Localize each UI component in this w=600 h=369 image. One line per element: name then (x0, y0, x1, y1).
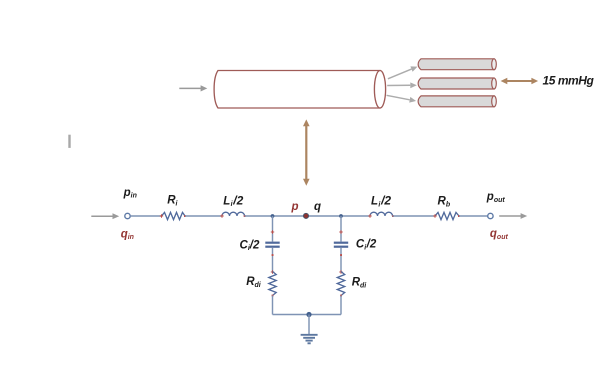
ground symbol (301, 335, 318, 344)
svg-text:Li/2: Li/2 (371, 194, 391, 209)
input arrow (gray, into circuit) (91, 213, 119, 219)
svg-text:Ci/2: Ci/2 (240, 239, 260, 252)
junction node right (339, 214, 343, 218)
red dot R_di1 bottom (272, 295, 274, 297)
wire: terminal to R_i (130, 215, 161, 217)
red polarity cross R_b left (433, 214, 436, 217)
red polarity cross L2 left (368, 214, 371, 217)
red dot R_di2 bottom (340, 295, 342, 297)
small cylinder 2 (418, 78, 496, 89)
red dot L2 right (392, 215, 394, 217)
svg-text:Ci/2: Ci/2 (356, 239, 377, 252)
wire: R_di left to bottom rail (272, 296, 274, 315)
svg-text:q: q (314, 201, 321, 213)
svg-text:Rdi: Rdi (246, 276, 262, 289)
ground stem wire (308, 315, 310, 335)
output terminal circle p_out (488, 213, 493, 218)
fan arrow middle (tube to small cylinder 2) (387, 82, 417, 88)
red cross R_di1 top (271, 270, 274, 273)
fan arrow bottom (tube to small cylinder 3) (387, 95, 417, 102)
fan arrow top (tube to small cylinder 1) (388, 66, 418, 78)
resistor R_b (435, 212, 459, 219)
resistor R_i (162, 212, 186, 219)
red cross cap2 top (339, 230, 342, 233)
vessel tube (large cylinder) (214, 71, 386, 109)
small cylinder 3 (418, 96, 496, 107)
red dot L right (244, 215, 246, 217)
wire: L_i/2 to L_i/2 (through nodes) (245, 215, 371, 217)
svg-text:15 mmHg: 15 mmHg (543, 73, 595, 87)
resistor R_di right (vertical) (337, 272, 344, 296)
svg-text:qin: qin (121, 228, 134, 241)
input terminal circle p_in (125, 213, 130, 218)
junction node left (271, 214, 275, 218)
wire: capacitor to R_di right (340, 248, 342, 272)
svg-text:pout: pout (486, 191, 506, 204)
ground junction node (306, 312, 311, 317)
red polarity cross L left (220, 214, 223, 217)
svg-text:p: p (291, 201, 299, 213)
wire: R_b to output terminal (459, 215, 487, 217)
inductor L_i/2 left (222, 212, 245, 216)
wire: R_di right to bottom rail (340, 296, 342, 315)
red dot cap1 bottom (272, 254, 274, 256)
red polarity cross R_i left (160, 214, 163, 217)
resistor R_di left (vertical) (269, 272, 276, 296)
wire: L2 to R_b (393, 215, 436, 217)
vertical double arrow (tube to circuit, brown) (303, 119, 310, 185)
capacitor C_i/2 right (334, 243, 348, 247)
red cross R_di2 top (339, 270, 342, 273)
output arrow (gray) (499, 213, 527, 219)
wire: R_i to L_i/2 (185, 215, 222, 217)
bottom rail wire (273, 314, 342, 316)
text cursor bar (gray) (68, 135, 70, 148)
svg-text:Rdi: Rdi (352, 277, 368, 290)
svg-text:Li/2: Li/2 (223, 193, 243, 208)
svg-text:pin: pin (123, 187, 137, 200)
inductor L_i/2 right (370, 212, 393, 216)
red dot R_b right (458, 215, 460, 217)
wire: left node down to capacitor (272, 216, 274, 242)
red dot R_i right (184, 215, 186, 217)
svg-text:Rb: Rb (438, 196, 451, 209)
red dot cap2 bottom (340, 254, 342, 256)
capacitor C_i/2 left (265, 243, 279, 247)
pressure double arrow (horizontal, brown) (501, 78, 538, 84)
inflow arrow (gray, into tube) (179, 85, 207, 91)
wire: capacitor to R_di left (272, 248, 274, 272)
red cross cap1 top (271, 230, 274, 233)
small cylinder 1 (418, 59, 496, 70)
svg-text:qout: qout (490, 228, 509, 241)
wire: right node down to capacitor (340, 216, 342, 242)
svg-text:Ri: Ri (167, 195, 178, 208)
node p (dark red) (303, 213, 309, 219)
